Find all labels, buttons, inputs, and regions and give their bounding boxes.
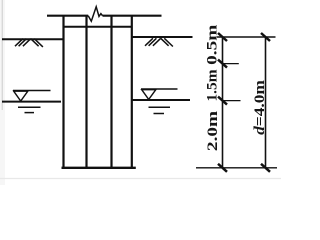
right water table symbol top bar <box>141 88 178 90</box>
overall depth dimension line <box>265 37 267 168</box>
svg-text:d=4.0m: d=4.0m <box>252 79 267 135</box>
dimension extension line at bottom <box>196 167 277 169</box>
left water table triangle <box>14 91 28 101</box>
left ground hatch <box>15 39 43 47</box>
dimension tick at ground / chain line <box>218 33 227 41</box>
well wall line 1 (outer left) <box>62 15 64 168</box>
left water dash 2 <box>25 112 35 114</box>
dimension tick at bottom / overall line <box>261 164 270 172</box>
well wall line 3 <box>110 15 112 168</box>
dimension tick at -0.5m <box>218 60 227 68</box>
left page border line <box>1 0 3 110</box>
left page margin band <box>0 0 5 185</box>
right water table triangle <box>142 90 156 100</box>
pipe break symbol <box>88 7 102 21</box>
right water line <box>132 99 190 101</box>
svg-text:2.0m: 2.0m <box>204 111 220 151</box>
dimension tick at -2.0m <box>218 97 227 105</box>
well wall line 4 (outer right) <box>131 15 133 168</box>
right ground surface line <box>132 36 193 38</box>
well bottom line <box>62 167 136 169</box>
left ground surface line <box>2 38 63 40</box>
well top cap line left segment <box>47 15 88 17</box>
right water dash 2 <box>154 113 165 115</box>
well top cap line right segment <box>103 15 162 17</box>
dimension extension line at ground level <box>217 36 276 38</box>
dimension extension line at -0.5m <box>223 63 239 65</box>
dimension tick at ground / overall line <box>261 33 270 41</box>
faint bottom rule <box>0 178 281 180</box>
left water table symbol top bar <box>13 90 51 92</box>
dimension extension line at -2.0m (water level) <box>223 100 241 102</box>
dimension chain line <box>222 37 224 168</box>
right ground hatch <box>145 38 173 46</box>
left water line <box>2 101 61 103</box>
left water dash 1 <box>18 106 41 108</box>
svg-text:1.5m: 1.5m <box>205 69 221 102</box>
right water dash 1 <box>149 106 171 108</box>
dimension tick at bottom / chain line <box>218 164 227 172</box>
well cap underside line <box>63 26 133 28</box>
well wall line 2 <box>85 15 87 168</box>
svg-text:0.5m: 0.5m <box>204 25 220 65</box>
